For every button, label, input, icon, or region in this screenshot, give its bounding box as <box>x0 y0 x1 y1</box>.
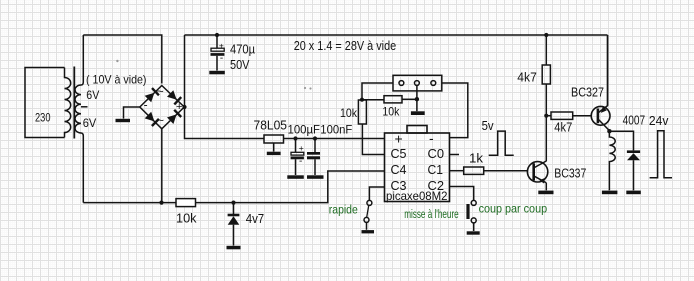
svg-text:10k: 10k <box>382 104 400 118</box>
svg-text:20 x 1.4 = 28V à vide: 20 x 1.4 = 28V à vide <box>294 39 397 53</box>
waveform 24v pulse <box>650 131 672 178</box>
svg-text:( 10V à vide): ( 10V à vide) <box>86 72 147 86</box>
svg-text:5v: 5v <box>482 119 495 133</box>
svg-text:100µF: 100µF <box>288 122 321 136</box>
node junction 100uF top <box>293 136 297 140</box>
svg-text:C4: C4 <box>391 163 407 177</box>
wire secondary bottom terminal <box>81 133 83 203</box>
svg-text:10k: 10k <box>176 210 197 225</box>
node junction serial <box>360 98 364 102</box>
resistor R1 10k (bottom rail) <box>176 199 196 207</box>
bridge diode D2 (top to plus) <box>167 90 181 104</box>
svg-text:+: + <box>395 131 403 147</box>
wire header pin3 to picaxe serout <box>442 83 468 138</box>
ground (coup par coup) <box>467 231 480 234</box>
node junction collector/4k7 <box>544 114 548 118</box>
resistor R4 1k <box>450 167 528 174</box>
wire top rail right end down to BC327 emitter <box>607 35 609 106</box>
transformer secondary winding <box>75 85 81 133</box>
node junction BC327 collector <box>607 129 611 133</box>
ground (470u) <box>209 71 225 75</box>
svg-text:-: - <box>220 53 223 64</box>
resistor R6 4k7 (horizontal, BC327 base) <box>546 112 591 119</box>
svg-text:4k7: 4k7 <box>554 120 572 134</box>
wire header pin1 to serial resistor node <box>362 83 393 100</box>
svg-text:rapide: rapide <box>329 203 358 217</box>
resistor R2 10k (serial, horizontal) <box>362 85 417 111</box>
node junction 100nF top <box>313 136 317 140</box>
wire bridge AC bottom down to bottom rail <box>161 129 163 203</box>
svg-text:470µ: 470µ <box>230 43 255 57</box>
ground (4007) <box>626 191 641 195</box>
svg-text:C5: C5 <box>391 147 407 161</box>
svg-text:-: - <box>144 98 148 112</box>
svg-text:1k: 1k <box>469 151 484 165</box>
svg-text:10k: 10k <box>340 106 358 120</box>
resistor R3 10k (serial in, vertical) <box>358 100 384 155</box>
bridge diode D4 (bottom to plus) <box>167 110 181 124</box>
svg-text:BC327: BC327 <box>571 85 604 99</box>
capacitor C3 100nF <box>307 139 320 176</box>
ground (rapide) <box>362 230 375 233</box>
ground (zener) <box>227 246 241 250</box>
svg-text:-: - <box>299 156 302 167</box>
ground (100nF) <box>307 175 324 179</box>
ground (78L05) <box>267 152 281 155</box>
svg-text:-: - <box>429 130 434 146</box>
node junction bridge bottom / bottom rail <box>159 201 163 205</box>
node junction zener top <box>231 201 235 205</box>
svg-text:50V: 50V <box>230 58 250 72</box>
svg-text:230: 230 <box>35 112 51 124</box>
svg-text:+: + <box>176 101 182 113</box>
ground (relay coil) <box>602 191 618 195</box>
wire secondary top to bridge AC top <box>83 35 162 84</box>
svg-text:+: + <box>299 143 304 153</box>
wire bridge plus down to regulator input <box>185 107 265 139</box>
svg-text:misse à l'heure: misse à l'heure <box>404 207 459 221</box>
switch S2 coup par coup <box>450 187 477 232</box>
transformer center tap stub <box>81 106 88 108</box>
svg-text:C0: C0 <box>428 147 445 161</box>
svg-text:78L05: 78L05 <box>254 119 288 133</box>
relay coil L1 <box>609 131 615 190</box>
svg-text:100nF: 100nF <box>320 122 352 136</box>
transistor Q2 BC327 <box>591 35 610 131</box>
ground (BC337 emitter) <box>538 191 553 195</box>
node junction 4k7 top rail <box>544 33 548 37</box>
svg-text:4007: 4007 <box>623 114 646 128</box>
wire bottom rail (AC sense) to C4 <box>83 171 384 203</box>
ground (100uF) <box>287 175 304 179</box>
bridge diode D3 (minus to bottom) <box>145 112 159 126</box>
svg-text:~: ~ <box>157 85 164 99</box>
IC U1 picaxe08M2 body <box>385 126 450 202</box>
transformer primary winding <box>65 68 71 138</box>
svg-text:BC337: BC337 <box>554 167 586 181</box>
svg-text:C1: C1 <box>428 163 444 177</box>
wire top rail <box>185 34 608 36</box>
wire bridge plus up to top rail <box>184 35 186 107</box>
node junction 470u top <box>215 33 219 37</box>
diode D5 4007 (flyback) <box>609 131 640 190</box>
switch S1 rapide <box>364 187 385 230</box>
zener diode Z1 4v7 <box>228 203 240 246</box>
svg-text:6V: 6V <box>86 88 99 102</box>
svg-text:4v7: 4v7 <box>246 211 265 226</box>
svg-text:picaxe08M2: picaxe08M2 <box>386 189 448 203</box>
ground (bridge minus) <box>116 119 131 122</box>
regulator U2 78L05 <box>264 135 284 152</box>
transformer primary loop (mains) <box>25 68 65 138</box>
wire bridge minus to ground <box>124 107 140 119</box>
resistor R5 4k7 (vertical) <box>542 35 550 116</box>
svg-text:4k7: 4k7 <box>517 71 537 85</box>
svg-text:+: + <box>219 40 224 50</box>
svg-text:6V: 6V <box>83 116 97 130</box>
svg-text:coup par coup: coup par coup <box>479 202 548 216</box>
wire 5V rail to picaxe <box>284 138 385 140</box>
capacitor C2 100uF <box>291 139 304 176</box>
stray mark dots <box>116 60 311 90</box>
waveform 5v pulse <box>489 131 514 155</box>
node junction header ground <box>415 97 419 101</box>
svg-text:24v: 24v <box>649 114 669 128</box>
wire secondary top terminal <box>81 35 83 85</box>
bridge rectifier diamond <box>140 86 185 129</box>
ground (header) <box>411 111 425 115</box>
node junction bridge plus <box>182 105 186 109</box>
pin stub C0 <box>450 154 460 156</box>
capacitor C1 470u <box>211 35 225 71</box>
programming header J1 <box>393 75 442 91</box>
transistor Q1 BC337 <box>527 116 547 191</box>
bridge diode D1 (minus to top) <box>145 88 159 102</box>
transformer core <box>73 67 75 139</box>
svg-text:~: ~ <box>157 114 164 128</box>
